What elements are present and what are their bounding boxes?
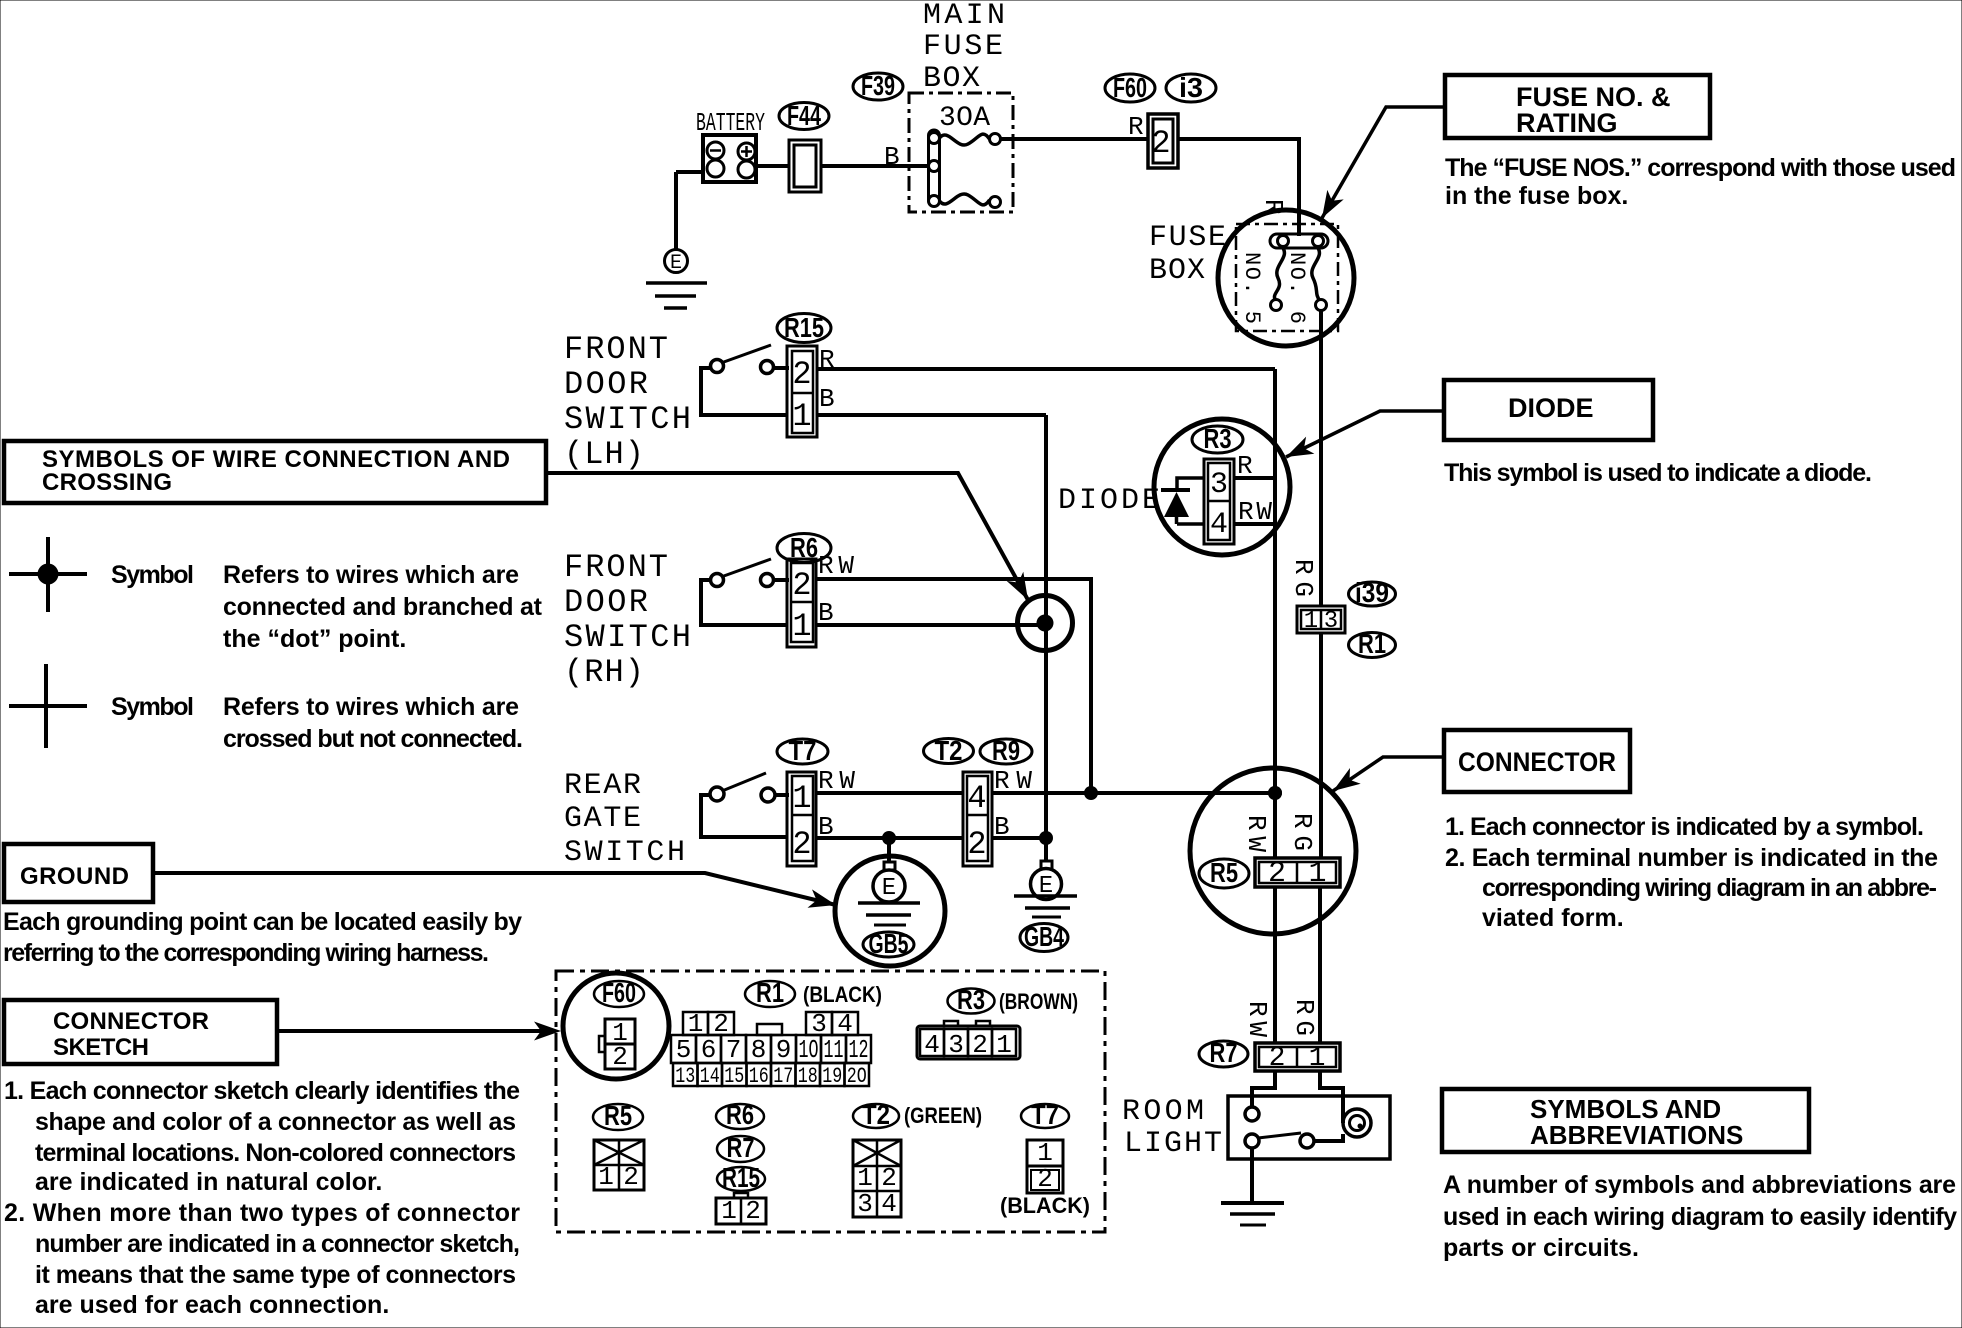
svg-text:T2: T2 <box>862 1099 890 1130</box>
svg-text:1. Each connector is indicate: 1. Each connector is indicated by a symb… <box>1445 813 1924 841</box>
svg-text:SKETCH: SKETCH <box>53 1034 149 1061</box>
svg-text:GATE: GATE <box>564 802 641 836</box>
svg-text:R15: R15 <box>722 1162 760 1193</box>
svg-text:18: 18 <box>798 1064 818 1089</box>
svg-text:4: 4 <box>967 780 986 817</box>
svg-text:F60: F60 <box>602 977 636 1008</box>
svg-text:5: 5 <box>676 1035 692 1065</box>
svg-text:1: 1 <box>598 1162 614 1192</box>
svg-text:Refers to wires which are: Refers to wires which are <box>223 693 519 721</box>
svg-text:GROUND: GROUND <box>20 863 129 890</box>
svg-text:(BROWN): (BROWN) <box>999 989 1078 1014</box>
svg-text:1: 1 <box>996 1030 1012 1060</box>
svg-text:CONNECTOR: CONNECTOR <box>1458 747 1616 777</box>
svg-text:BOX: BOX <box>1149 254 1205 288</box>
svg-text:(RH): (RH) <box>564 654 644 691</box>
svg-text:2O: 2O <box>847 1064 867 1089</box>
svg-text:referring to the corresponding: referring to the corresponding wiring ha… <box>3 939 489 967</box>
svg-text:B: B <box>884 142 900 172</box>
svg-text:2: 2 <box>792 826 811 863</box>
svg-text:(GREEN): (GREEN) <box>904 1103 982 1128</box>
svg-text:(BLACK): (BLACK) <box>803 982 882 1007</box>
svg-text:NO. 6: NO. 6 <box>1284 252 1309 324</box>
svg-text:12: 12 <box>849 1035 869 1065</box>
svg-text:Each grounding point can be lo: Each grounding point can be located easi… <box>3 908 522 936</box>
svg-text:A number of symbols and abbrev: A number of symbols and abbreviations ar… <box>1443 1171 1956 1199</box>
svg-text:2. When more than two types o: 2. When more than two types of connector <box>4 1199 520 1227</box>
svg-text:SWITCH: SWITCH <box>564 619 691 656</box>
svg-text:ABBREVIATIONS: ABBREVIATIONS <box>1530 1120 1743 1150</box>
svg-text:R7: R7 <box>1210 1037 1238 1068</box>
svg-text:(BLACK): (BLACK) <box>1000 1193 1090 1218</box>
svg-text:T7: T7 <box>789 735 817 766</box>
svg-text:R9: R9 <box>992 735 1020 766</box>
svg-text:2: 2 <box>1268 857 1286 891</box>
svg-text:E: E <box>670 252 682 275</box>
svg-text:R3: R3 <box>1204 423 1232 454</box>
svg-text:2: 2 <box>1037 1164 1053 1194</box>
svg-text:1: 1 <box>721 1196 737 1226</box>
svg-text:(LH): (LH) <box>564 436 644 473</box>
svg-text:are used for each connection.: are used for each connection. <box>35 1291 389 1319</box>
svg-text:9: 9 <box>776 1035 792 1065</box>
svg-text:Refers to wires which are: Refers to wires which are <box>223 561 519 589</box>
svg-text:corresponding wiring diagram i: corresponding wiring diagram in an abbre… <box>1482 874 1937 902</box>
svg-text:13: 13 <box>675 1064 695 1089</box>
svg-text:RW: RW <box>1242 1001 1272 1037</box>
svg-text:2: 2 <box>1269 1043 1286 1074</box>
svg-text:This symbol is used to indicat: This symbol is used to indicate a diode. <box>1444 459 1872 487</box>
svg-text:1: 1 <box>1304 608 1318 635</box>
svg-text:used in each wiring diagram to: used in each wiring diagram to easily id… <box>1443 1203 1957 1231</box>
svg-text:B: B <box>818 598 834 628</box>
svg-text:CROSSING: CROSSING <box>42 469 172 496</box>
svg-text:R: R <box>1128 112 1144 142</box>
svg-text:4: 4 <box>924 1030 940 1060</box>
svg-text:RG: RG <box>1288 559 1318 597</box>
svg-text:8: 8 <box>751 1035 767 1065</box>
svg-text:4: 4 <box>881 1189 897 1219</box>
svg-text:3OA: 3OA <box>939 103 990 134</box>
svg-text:1: 1 <box>792 608 811 645</box>
svg-text:GB5: GB5 <box>869 928 909 959</box>
svg-text:T2: T2 <box>935 735 963 766</box>
svg-text:GB4: GB4 <box>1024 921 1064 952</box>
svg-text:B: B <box>818 812 834 842</box>
svg-text:it means that the same type of: it means that the same type of connector… <box>35 1261 516 1289</box>
svg-text:RG: RG <box>1287 813 1317 851</box>
svg-text:i3: i3 <box>1179 72 1203 103</box>
svg-text:Symbol: Symbol <box>111 693 194 721</box>
svg-text:R: R <box>819 345 835 375</box>
svg-text:connected and branched at: connected and branched at <box>223 593 543 621</box>
svg-text:BOX: BOX <box>923 62 980 96</box>
svg-text:7: 7 <box>726 1035 742 1065</box>
svg-text:15: 15 <box>724 1064 744 1089</box>
svg-text:11: 11 <box>824 1035 844 1065</box>
svg-text:F60: F60 <box>1113 72 1147 103</box>
svg-text:SWITCH: SWITCH <box>564 401 691 438</box>
svg-text:SWITCH: SWITCH <box>564 836 685 870</box>
svg-text:i39: i39 <box>1355 577 1389 608</box>
svg-text:R5: R5 <box>1210 857 1238 888</box>
svg-text:1: 1 <box>792 780 811 817</box>
svg-text:terminal locations. Non-colore: terminal locations. Non-colored connecto… <box>35 1139 516 1167</box>
svg-text:FUSE: FUSE <box>923 30 1003 64</box>
svg-text:viated form.: viated form. <box>1482 904 1624 932</box>
svg-text:RW: RW <box>1241 815 1271 852</box>
svg-text:2. Each terminal number is in: 2. Each terminal number is indicated in … <box>1445 844 1938 872</box>
svg-text:number are indicated in a conn: number are indicated in a connector sket… <box>35 1230 520 1258</box>
svg-text:B: B <box>819 384 835 414</box>
svg-text:REAR: REAR <box>564 769 641 803</box>
svg-text:19: 19 <box>822 1064 842 1089</box>
svg-text:3: 3 <box>1324 608 1338 635</box>
svg-text:2: 2 <box>967 826 986 863</box>
svg-text:DIODE: DIODE <box>1508 393 1594 423</box>
svg-text:17: 17 <box>773 1064 793 1089</box>
svg-text:parts or circuits.: parts or circuits. <box>1443 1234 1639 1262</box>
svg-text:Symbol: Symbol <box>111 561 194 589</box>
svg-text:16: 16 <box>749 1064 769 1089</box>
svg-text:6: 6 <box>701 1035 717 1065</box>
svg-text:3: 3 <box>1210 468 1228 502</box>
svg-text:RG: RG <box>1289 999 1319 1036</box>
svg-text:MAIN: MAIN <box>923 0 1005 33</box>
svg-text:2: 2 <box>792 567 811 604</box>
svg-text:2: 2 <box>612 1042 628 1072</box>
svg-text:R6: R6 <box>726 1099 754 1130</box>
svg-text:4: 4 <box>1210 508 1228 542</box>
svg-text:ROOM: ROOM <box>1122 1095 1204 1129</box>
svg-text:1O: 1O <box>799 1035 819 1065</box>
svg-text:E: E <box>882 875 896 902</box>
svg-text:1. Each connector sketch clea: 1. Each connector sketch clearly identif… <box>4 1077 520 1105</box>
svg-text:2: 2 <box>972 1030 988 1060</box>
svg-text:3: 3 <box>857 1189 873 1219</box>
svg-text:are indicated in natural color: are indicated in natural color. <box>35 1168 382 1196</box>
svg-text:2: 2 <box>745 1196 761 1226</box>
svg-text:R15: R15 <box>784 312 824 343</box>
svg-text:the “dot” point.: the “dot” point. <box>223 625 406 653</box>
svg-text:2: 2 <box>792 356 811 393</box>
svg-text:14: 14 <box>700 1064 720 1089</box>
svg-text:The “FUSE NOS.” correspond wit: The “FUSE NOS.” correspond with those us… <box>1445 154 1956 182</box>
svg-text:1: 1 <box>1309 1043 1326 1074</box>
svg-text:crossed but not connected.: crossed but not connected. <box>223 725 523 753</box>
svg-text:R7: R7 <box>727 1132 755 1163</box>
svg-text:shape and color of a connector: shape and color of a connector as well a… <box>35 1108 516 1136</box>
svg-text:B: B <box>994 812 1010 842</box>
svg-text:FRONT: FRONT <box>564 549 668 586</box>
svg-text:R1: R1 <box>756 977 784 1008</box>
svg-text:FUSE: FUSE <box>1149 221 1226 255</box>
svg-text:RATING: RATING <box>1516 108 1618 138</box>
svg-text:DOOR: DOOR <box>564 366 648 403</box>
svg-text:2: 2 <box>623 1162 639 1192</box>
svg-text:R1: R1 <box>1358 628 1386 659</box>
svg-text:R5: R5 <box>604 1100 632 1131</box>
svg-text:F44: F44 <box>787 100 821 131</box>
svg-text:FRONT: FRONT <box>564 331 668 368</box>
svg-text:LIGHT: LIGHT <box>1124 1127 1222 1161</box>
svg-text:1: 1 <box>792 398 811 435</box>
svg-text:DOOR: DOOR <box>564 584 648 621</box>
svg-text:RW: RW <box>818 551 854 581</box>
svg-text:1: 1 <box>1308 857 1326 891</box>
svg-text:F39: F39 <box>861 70 895 101</box>
svg-text:NO. 5: NO. 5 <box>1239 252 1264 324</box>
svg-text:CONNECTOR: CONNECTOR <box>53 1008 209 1035</box>
svg-text:R: R <box>1237 451 1253 481</box>
svg-text:T7: T7 <box>1031 1099 1059 1130</box>
svg-text:R3: R3 <box>957 984 985 1015</box>
svg-text:in the fuse box.: in the fuse box. <box>1445 182 1628 210</box>
svg-text:2: 2 <box>1151 125 1170 162</box>
svg-text:3: 3 <box>948 1030 964 1060</box>
svg-text:DIODE: DIODE <box>1058 484 1160 518</box>
